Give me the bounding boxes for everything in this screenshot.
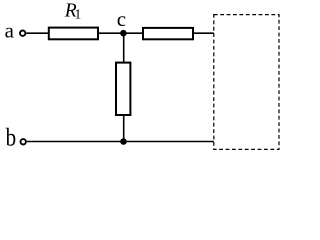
resistor R2 <box>143 28 193 39</box>
svg-text:c: c <box>117 7 126 31</box>
node c junction dot <box>120 30 127 37</box>
wire R3 to bottom wire <box>123 115 125 142</box>
dashed box (two-port network) <box>214 15 279 150</box>
bottom junction dot <box>120 138 127 145</box>
wire R1 to R2 <box>99 32 143 34</box>
terminal a <box>20 31 25 36</box>
terminal b <box>21 139 26 144</box>
terminal b label <box>6 123 17 151</box>
svg-text:1: 1 <box>75 7 82 22</box>
svg-text:b: b <box>6 123 17 151</box>
resistor R3 (vertical) <box>116 63 130 115</box>
wire a to R1 <box>26 32 48 34</box>
bottom wire b to dashed box <box>27 141 214 143</box>
svg-text:a: a <box>5 19 15 43</box>
wire node c down to R3 <box>123 33 125 63</box>
resistor R1 <box>49 28 98 40</box>
wire R2 to dashed box <box>193 32 214 34</box>
